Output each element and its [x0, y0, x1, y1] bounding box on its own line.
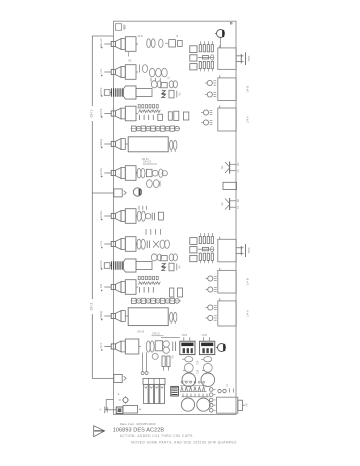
- svg-text:CH 1: CH 1: [90, 110, 94, 118]
- svg-text:106893 DES AC22B: 106893 DES AC22B: [113, 428, 165, 434]
- svg-text:FREQ: FREQ: [99, 138, 103, 147]
- svg-text:1/4 A: 1/4 A: [245, 116, 249, 123]
- svg-text:MOVED SOME PARTS, AND DOE 1061: MOVED SOME PARTS, AND DOE 106169 SFW QUA…: [131, 440, 237, 444]
- svg-text:C38: C38: [197, 369, 199, 374]
- svg-text:MUTE: MUTE: [99, 260, 103, 268]
- svg-text:G: G: [99, 408, 103, 410]
- svg-text:TRS: TRS: [247, 56, 251, 62]
- svg-text:JW 30: JW 30: [137, 330, 145, 333]
- svg-text:LVL: LVL: [99, 68, 103, 73]
- svg-text:1/4 B: 1/4 B: [245, 86, 249, 93]
- svg-text:LEVEL: LEVEL: [99, 167, 103, 176]
- svg-text:TILT: TILT: [99, 342, 103, 348]
- svg-text:R1: R1: [123, 25, 127, 29]
- svg-text:FREQ: FREQ: [99, 310, 103, 319]
- svg-text:1/4 A: 1/4 A: [245, 310, 249, 317]
- svg-text:LVL: LVL: [99, 240, 103, 245]
- svg-text:Rane Corp. (425)355-6000: Rane Corp. (425)355-6000: [120, 422, 156, 426]
- svg-text:MUTE: MUTE: [99, 87, 103, 95]
- svg-text:U9 B: U9 B: [202, 334, 208, 337]
- svg-text:MUTE: MUTE: [99, 108, 103, 116]
- svg-text:ACTION: ADDED C44 THRU C50 CAP: ACTION: ADDED C44 THRU C50 CAPS,: [120, 434, 194, 438]
- svg-text:U9 B: U9 B: [182, 334, 188, 337]
- svg-text:C44 22: C44 22: [143, 161, 152, 164]
- svg-text:+8: +8: [245, 403, 249, 407]
- svg-text:CD: CD: [99, 284, 103, 288]
- svg-text:C36: C36: [197, 360, 199, 365]
- svg-text:DELAY: DELAY: [99, 38, 103, 47]
- svg-text:R R R R R: R R R R R: [182, 381, 193, 383]
- svg-text:14 B: 14 B: [138, 35, 143, 38]
- svg-text:TRS: TRS: [247, 248, 251, 254]
- svg-text:C49 22: C49 22: [152, 333, 160, 336]
- svg-text:LEVEL: LEVEL: [99, 210, 103, 219]
- svg-text:1/4 B: 1/4 B: [245, 278, 249, 285]
- svg-text:CH 2: CH 2: [90, 303, 94, 311]
